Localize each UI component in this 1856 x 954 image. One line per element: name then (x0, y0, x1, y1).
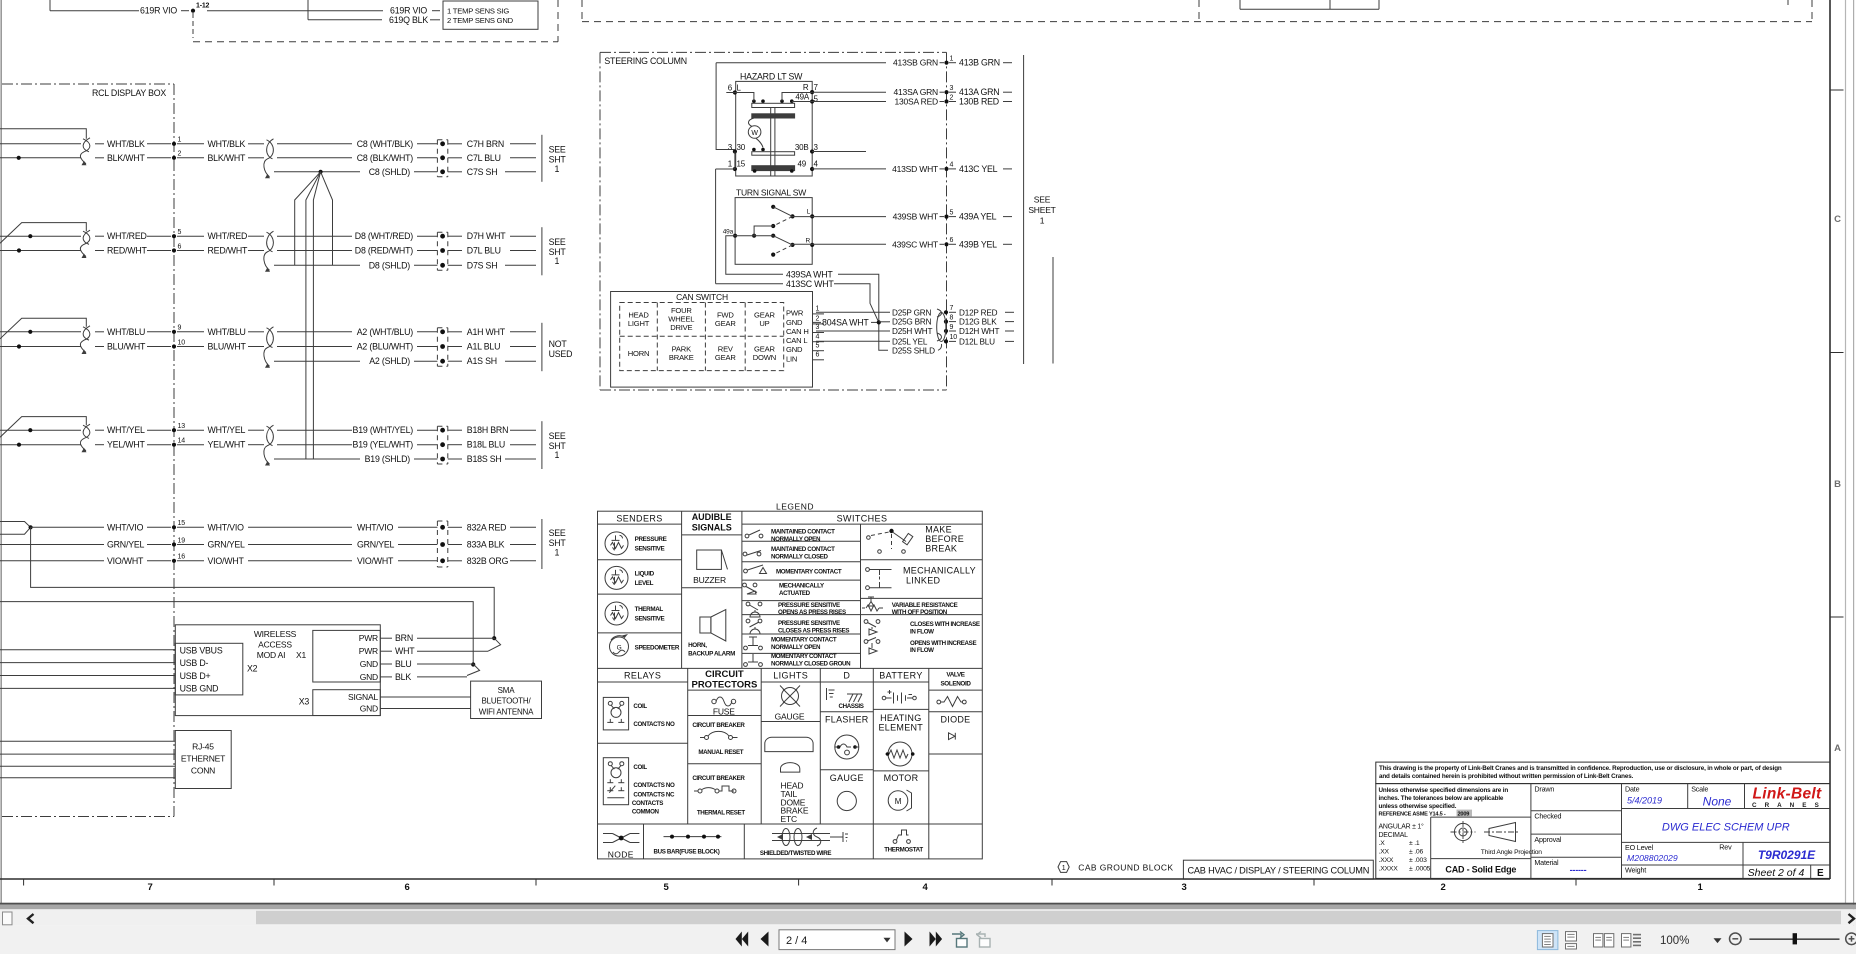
wire D7H WHT (448, 231, 536, 241)
node 1-12 junction (191, 3, 210, 39)
label 619Q BLK (389, 15, 440, 25)
wire YEL/WHT row2 (95, 440, 171, 450)
CAN pin 2 (813, 316, 825, 324)
valve solenoid symbol (937, 697, 966, 707)
wire shield D8 (SHLD) (274, 260, 437, 270)
svg-text:W: W (751, 130, 758, 137)
svg-text:BLUETOOTH/: BLUETOOTH/ (482, 697, 532, 706)
svg-text:NORMALLY OPEN: NORMALLY OPEN (771, 536, 821, 543)
sender THERMAL SENSITIVE (605, 602, 664, 625)
title DWG ELEC SCHEM UPR (1662, 822, 1790, 834)
svg-text:833A BLK: 833A BLK (467, 540, 505, 550)
svg-text:LEGEND: LEGEND (776, 502, 814, 512)
svg-text:A1S SH: A1S SH (467, 356, 497, 366)
svg-text:1: 1 (950, 56, 954, 63)
wire WHT/RED mid (177, 231, 264, 241)
svg-text:Third Angle Projection: Third Angle Projection (1481, 849, 1543, 856)
wire A1S SH (448, 356, 536, 366)
svg-text:9: 9 (178, 325, 182, 332)
svg-text:BREAK: BREAK (925, 544, 957, 554)
heating element (878, 713, 923, 766)
svg-text:SWITCHES: SWITCHES (837, 514, 888, 524)
svg-text:DRIVE: DRIVE (670, 323, 692, 332)
svg-text:MANUAL RESET: MANUAL RESET (698, 749, 743, 756)
svg-text:2009: 2009 (1458, 811, 1470, 817)
wire C8 (BLK/WHT) (277, 153, 437, 163)
svg-text:MOTOR: MOTOR (884, 773, 919, 783)
legend frame (598, 511, 983, 859)
switch CLOSES WITH INCREASE IN FLOW (864, 620, 980, 636)
svg-text:HORN: HORN (628, 349, 650, 358)
svg-text:ACTUATED: ACTUATED (779, 590, 811, 597)
svg-text:413B GRN: 413B GRN (959, 58, 1000, 68)
toolbar zoom slider (1749, 933, 1839, 944)
svg-text:A1H WHT: A1H WHT (467, 327, 506, 337)
wire B19 (WHT/YEL) (277, 425, 437, 435)
hazard terminal 49 4 (790, 159, 819, 173)
svg-text:SHIELDED/TWISTED WIRE: SHIELDED/TWISTED WIRE (760, 850, 832, 857)
svg-text:R: R (803, 83, 809, 92)
svg-text:Material: Material (1534, 858, 1559, 867)
hazard terminal 1 15 (728, 159, 757, 173)
wire 413SC WHT (716, 279, 879, 323)
svg-text:WHT: WHT (395, 646, 415, 656)
wire USB VBUS (0, 649, 175, 651)
svg-text:------: ------ (1570, 865, 1587, 875)
svg-text:30B: 30B (795, 143, 809, 152)
svg-text:ETC: ETC (781, 814, 797, 824)
svg-text:FUSE: FUSE (713, 707, 735, 717)
wire shield bus fan (295, 172, 333, 459)
svg-text:D7L BLU: D7L BLU (467, 246, 501, 256)
svg-text:SMA: SMA (498, 686, 516, 695)
legend header CIRCUIT PROTECTORS (691, 669, 757, 690)
node pin 6 (172, 243, 182, 252)
svg-text:.X: .X (1379, 840, 1386, 847)
wire RJ45 2 (0, 753, 175, 755)
svg-text:MECHANICALLY: MECHANICALLY (903, 566, 976, 576)
toolbar view single page (active) (1537, 931, 1558, 950)
page right edge (1846, 0, 1854, 928)
svg-text:DECIMAL: DECIMAL (1379, 832, 1409, 839)
svg-text:WIRELESS: WIRELESS (254, 629, 297, 639)
CAN pin 4 (813, 333, 825, 341)
toolbar zoom in (1846, 933, 1856, 945)
zone numbers (147, 882, 1703, 893)
node pin 9 (172, 325, 182, 334)
svg-text:D7S SH: D7S SH (467, 260, 498, 270)
hazard terminal R 7 (803, 83, 819, 94)
wire D25H WHT (892, 327, 932, 336)
wire YEL/WHT mid (177, 440, 264, 450)
svg-text:2: 2 (1440, 882, 1445, 893)
svg-text:HORN,: HORN, (688, 642, 707, 649)
hazard terminal 3 30 (728, 143, 746, 154)
svg-text:100%: 100% (1660, 935, 1689, 947)
wire WHT/BLK row1 (95, 139, 171, 149)
svg-text:CIRCUIT BREAKER: CIRCUIT BREAKER (692, 775, 745, 782)
svg-text:LEVEL: LEVEL (635, 580, 654, 587)
CAN pin 3 (813, 324, 825, 332)
svg-text:10: 10 (178, 339, 186, 346)
svg-text:NORMALLY CLOSED GROUN: NORMALLY CLOSED GROUN (771, 660, 851, 667)
ground CAB GROUND BLOCK (1058, 862, 1174, 873)
svg-text:CAN SWITCH: CAN SWITCH (676, 292, 728, 302)
wire D8 (RED/WHT) (277, 246, 437, 256)
svg-text:PWR: PWR (359, 633, 378, 643)
svg-text:unless otherwise specified.: unless otherwise specified. (1379, 803, 1457, 810)
svg-text:A2 (BLU/WHT): A2 (BLU/WHT) (357, 342, 414, 352)
legend header VALVE SOLENOID (940, 672, 971, 688)
svg-text:THERMOSTAT: THERMOSTAT (884, 846, 923, 853)
scrollbar track (0, 909, 1856, 926)
svg-text:CLOSES AS PRESS RISES: CLOSES AS PRESS RISES (778, 627, 849, 634)
svg-text:PRESSURE SENSITIVE: PRESSURE SENSITIVE (778, 602, 840, 609)
flasher (825, 714, 869, 759)
wire B19 (YEL/WHT) (277, 440, 437, 450)
svg-text:REFERENCE ASME Y14.5 -: REFERENCE ASME Y14.5 - (1379, 811, 1446, 817)
svg-text:BRN: BRN (395, 633, 413, 643)
svg-text:BATTERY: BATTERY (879, 671, 922, 681)
wire BLK/WHT row2 (95, 153, 171, 163)
svg-text:130SA RED: 130SA RED (894, 97, 938, 107)
sender PRESSURE SENSITIVE (605, 532, 667, 555)
svg-text:± .0005: ± .0005 (1409, 865, 1431, 872)
svg-text:1-12: 1-12 (196, 3, 210, 10)
svg-text:GRN/YEL: GRN/YEL (357, 540, 395, 550)
svg-text:SPEEDOMETER: SPEEDOMETER (635, 645, 680, 652)
wire 619Q BLK (308, 0, 382, 20)
switch MOMENTARY CONTACT NORMALLY CLOSED (744, 653, 852, 667)
relay COIL NO NC COMMON (603, 758, 675, 816)
svg-text:B: B (1834, 479, 1841, 490)
svg-text:GRN/YEL: GRN/YEL (208, 540, 246, 550)
svg-text:CAD - Solid Edge: CAD - Solid Edge (1445, 865, 1516, 875)
svg-text:GND: GND (786, 345, 803, 354)
node pin 4 / wire 413C YEL (944, 162, 1012, 174)
wire WHT/YEL row1 (95, 425, 171, 435)
sender LIQUID LEVEL (605, 566, 655, 589)
svg-text:WHT/VIO: WHT/VIO (107, 522, 144, 532)
wire pair WHT/BLK/BLK/WHT left entry (0, 129, 86, 160)
wire B18H BRN (448, 425, 536, 435)
toolbar page input (779, 930, 895, 950)
battery symbol (882, 690, 916, 704)
svg-text:AUDIBLE: AUDIBLE (692, 512, 732, 522)
svg-text:13: 13 (178, 423, 186, 430)
svg-text:WHT/BLU: WHT/BLU (208, 327, 246, 337)
svg-text:DIODE: DIODE (940, 714, 970, 724)
label 619R VIO (140, 6, 440, 16)
node pin 7 / wire D12P RED (944, 305, 1014, 317)
svg-text:IN FLOW: IN FLOW (910, 647, 934, 654)
svg-text:Link-Belt: Link-Belt (1752, 786, 1822, 803)
protector CIRCUIT BREAKER THERMAL RESET (692, 775, 745, 817)
svg-text:RCL DISPLAY BOX: RCL DISPLAY BOX (92, 88, 166, 98)
svg-text:YEL/WHT: YEL/WHT (208, 440, 247, 450)
bus bar symbol (654, 835, 722, 856)
svg-text:VALVE: VALVE (946, 672, 964, 679)
svg-text:± .1: ± .1 (1409, 840, 1420, 847)
svg-text:6: 6 (816, 352, 820, 359)
note bracket B19 (542, 421, 567, 469)
drawing border right (1829, 0, 1831, 879)
svg-text:D12L BLU: D12L BLU (959, 337, 995, 346)
svg-text:BLU: BLU (395, 659, 412, 669)
svg-text:LIN: LIN (786, 354, 797, 363)
svg-text:BUZZER: BUZZER (693, 575, 726, 585)
svg-text:WHT/BLU: WHT/BLU (107, 327, 145, 337)
toolbar next page button (905, 932, 913, 947)
svg-text:SEE: SEE (549, 431, 566, 441)
connector X3 (299, 690, 381, 716)
svg-text:SIGNALS: SIGNALS (692, 523, 732, 533)
svg-text:413C YEL: 413C YEL (959, 164, 998, 174)
shield oval (937, 309, 946, 342)
svg-text:OPENS WITH INCREASE: OPENS WITH INCREASE (910, 640, 976, 647)
svg-text:CAN L: CAN L (786, 336, 807, 345)
wire WHT/BLK mid (177, 139, 264, 149)
svg-text:Date: Date (1625, 785, 1640, 794)
CAN key FOUR WHEEL DRIVE (668, 306, 694, 332)
svg-text:SHT: SHT (549, 538, 567, 548)
svg-text:BACKUP ALARM: BACKUP ALARM (688, 651, 735, 658)
switch CAN SWITCH box (611, 292, 813, 388)
svg-text:30: 30 (737, 143, 746, 152)
hazard contacts upper (735, 93, 812, 103)
wire WHT (380, 646, 488, 656)
wire 439SC WHT (793, 239, 945, 249)
svg-text:WHT/RED: WHT/RED (208, 231, 248, 241)
svg-text:SOLENOID: SOLENOID (940, 681, 971, 688)
svg-text:ACCESS: ACCESS (258, 640, 292, 650)
legend header BATTERY (879, 671, 922, 681)
node pin 13 (172, 423, 185, 432)
twisted pair symbol B19 A (80, 424, 90, 452)
svg-text:GND: GND (786, 318, 803, 327)
switch HAZARD LT SW box (736, 72, 813, 177)
twisted pair symbol C8 B (264, 139, 274, 179)
svg-text:inches. The tolerances below: inches. The tolerances below are applica… (1379, 795, 1504, 802)
svg-text:TURN SIGNAL SW: TURN SIGNAL SW (736, 188, 806, 198)
svg-text:D12G BLK: D12G BLK (959, 318, 997, 327)
svg-text:SHEET: SHEET (1028, 205, 1055, 215)
svg-text:M: M (895, 797, 902, 806)
page left edge (0, 0, 2, 903)
svg-text:± .003: ± .003 (1409, 857, 1427, 864)
protector CIRCUIT BREAKER MANUAL RESET (692, 722, 745, 756)
EO level row (1622, 842, 1831, 878)
wire RJ45 3 (0, 765, 175, 767)
wire BRN (380, 633, 500, 651)
svg-text:ELEMENT: ELEMENT (878, 722, 923, 732)
wire C8 (WHT/BLK) (277, 139, 437, 149)
svg-text:VARIABLE RESISTANCE: VARIABLE RESISTANCE (892, 602, 958, 609)
switch MAINTAINED CONTACT NORMALLY OPEN (745, 529, 835, 543)
svg-text:BLK/WHT: BLK/WHT (107, 153, 146, 163)
svg-text:130B RED: 130B RED (959, 97, 999, 107)
connector X2 USB (175, 643, 257, 695)
svg-text:RELAYS: RELAYS (624, 671, 661, 681)
wire GRN/YEL row (107, 537, 437, 549)
svg-text:GAUGE: GAUGE (775, 712, 805, 722)
svg-text:C R A N E S: C R A N E S (1752, 802, 1822, 809)
wire C7H BRN (448, 139, 536, 149)
relay COIL CONTACTS NO (603, 697, 675, 730)
svg-text:B18L BLU: B18L BLU (467, 440, 505, 450)
component SMA BLUETOOTH/WIFI ANTENNA (471, 681, 542, 718)
svg-text:15: 15 (178, 520, 186, 527)
dashed enclosure top-left (193, 0, 558, 42)
svg-text:BLK/WHT: BLK/WHT (208, 153, 247, 163)
svg-text:USED: USED (549, 349, 573, 359)
svg-text:Unless otherwise specified dim: Unless otherwise specified dimensions ar… (1379, 787, 1509, 794)
svg-text:WITH OFF POSITION: WITH OFF POSITION (892, 609, 948, 616)
svg-text:1: 1 (555, 256, 560, 266)
svg-text:Scale: Scale (1691, 785, 1708, 794)
svg-text:IN FLOW: IN FLOW (910, 628, 934, 635)
hazard terminal 6 L (726, 84, 741, 95)
wire 619R VIO (50, 0, 383, 11)
svg-text:BEFORE: BEFORE (925, 534, 964, 544)
ground chassis symbols (827, 688, 864, 710)
svg-text:15: 15 (737, 159, 746, 168)
svg-text:VIO/WHT: VIO/WHT (107, 556, 144, 566)
component box fragment top (1240, 0, 1379, 9)
wire X3 GND (380, 708, 470, 710)
svg-text:YEL/WHT: YEL/WHT (107, 440, 146, 450)
svg-text:1: 1 (1040, 216, 1045, 226)
hazard terminal 30B 3 (795, 143, 866, 154)
zone ticks right (1830, 90, 1844, 617)
svg-text:GND: GND (360, 659, 378, 669)
switch MECHANICALLY ACTUATED (743, 583, 825, 598)
svg-text:A1L BLU: A1L BLU (467, 342, 500, 352)
svg-text:GEAR: GEAR (715, 319, 736, 328)
svg-text:D12P RED: D12P RED (959, 308, 998, 317)
toolbar last page button (930, 932, 943, 947)
svg-text:10: 10 (950, 334, 958, 341)
svg-text:NORMALLY OPEN: NORMALLY OPEN (771, 644, 821, 651)
svg-text:1: 1 (555, 450, 560, 460)
wire WHT/VIO entry (0, 522, 104, 535)
svg-text:LIQUID: LIQUID (635, 570, 655, 577)
RCL DISPLAY BOX enclosure (2, 84, 174, 817)
CAN key HORN (628, 349, 650, 358)
svg-text:.XXXX: .XXXX (1379, 865, 1399, 872)
svg-text:UP: UP (759, 319, 769, 328)
CAN key GEAR UP (754, 311, 775, 329)
twisted pair symbol B19 B (264, 425, 274, 465)
svg-text:LIGHT: LIGHT (628, 319, 650, 328)
legend header AUDIBLE SIGNALS (692, 512, 732, 533)
svg-text:SENSITIVE: SENSITIVE (635, 616, 665, 623)
svg-text:19: 19 (178, 537, 186, 544)
svg-text:X3: X3 (299, 697, 310, 707)
wire BLU/WHT mid (177, 342, 264, 352)
switch PRESSURE SENSITIVE CLOSES (746, 619, 849, 634)
switch MAKE BEFORE BREAK (867, 525, 964, 554)
svg-text:3: 3 (1181, 882, 1186, 893)
node shield bus junction (319, 170, 323, 174)
svg-text:and details contained herein i: and details contained herein is prohibit… (1379, 773, 1634, 780)
svg-text:D12H WHT: D12H WHT (959, 327, 999, 336)
svg-text:Rev: Rev (1719, 843, 1732, 852)
switch MOMENTARY CONTACT NORMALLY OPEN (744, 637, 837, 651)
wire D7S SH (448, 260, 536, 270)
svg-text:PRESSURE SENSITIVE: PRESSURE SENSITIVE (778, 620, 840, 627)
connector C8 (437, 140, 447, 177)
twisted pair symbol D8 B (264, 231, 274, 272)
svg-text:804SA WHT: 804SA WHT (822, 318, 869, 328)
svg-text:16: 16 (178, 554, 186, 561)
title block notice box (1376, 762, 1830, 784)
svg-text:C: C (1834, 214, 1841, 225)
svg-text:X2: X2 (247, 664, 258, 674)
note bracket A2 (542, 323, 572, 371)
node pin 3 / wire 413A GRN (944, 85, 1012, 97)
svg-text:GND: GND (360, 704, 378, 714)
wire D25S SHLD (892, 344, 942, 355)
wire A2 (BLU/WHT) (277, 342, 437, 352)
connector B19 (437, 426, 447, 464)
svg-text:GAUGE: GAUGE (830, 773, 864, 783)
svg-text:3: 3 (950, 85, 954, 92)
wire USB D+ (0, 675, 175, 677)
node pin 5 (172, 229, 182, 238)
wire VIO/WHT entry (0, 560, 104, 562)
node pin 6 / wire 439B YEL (944, 237, 1012, 249)
svg-text:SIGNAL: SIGNAL (348, 692, 378, 702)
legend header LIGHTS (773, 671, 808, 681)
svg-text:D25P GRN: D25P GRN (892, 308, 931, 317)
drawn checked approval material rows (1531, 785, 1622, 875)
svg-text:CAB HVAC / DISPLAY / STEERING: CAB HVAC / DISPLAY / STEERING COLUMN (1187, 865, 1369, 875)
zone letters (1834, 214, 1841, 754)
scrollbar left icon (3, 912, 13, 925)
lamp W (748, 118, 763, 148)
svg-text:C7H BRN: C7H BRN (467, 139, 504, 149)
wire pair WHT/RED/RED/WHT left entry (0, 223, 86, 253)
wire D25P GRN (892, 308, 931, 317)
svg-text:This drawing is the property o: This drawing is the property of Link-Bel… (1379, 765, 1782, 772)
diode (940, 714, 970, 739)
toolbar background (0, 926, 1856, 954)
svg-text:RED/WHT: RED/WHT (107, 246, 147, 256)
svg-text:VIO/WHT: VIO/WHT (208, 556, 245, 566)
node pin 10 / wire D12L BLU (944, 334, 1014, 346)
svg-text:BUS BAR(FUSE BLOCK): BUS BAR(FUSE BLOCK) (654, 849, 720, 856)
node pin 8 / wire D12G BLK (944, 314, 1014, 326)
wire BLK/WHT mid (177, 153, 264, 163)
CAN pin 5 (813, 342, 825, 350)
svg-text:WHT/BLK: WHT/BLK (107, 139, 145, 149)
zone ticks bottom (24, 879, 1576, 886)
light dome small (781, 763, 800, 773)
svg-text:LIGHTS: LIGHTS (773, 671, 808, 681)
svg-text:14: 14 (178, 438, 186, 445)
legend header SWITCHES (837, 514, 888, 524)
wire BLK (380, 672, 467, 682)
wire 413SD WHT (812, 164, 944, 174)
toolbar view continuous (1566, 932, 1577, 949)
svg-text:ANGULAR ± 1°: ANGULAR ± 1° (1379, 822, 1425, 830)
protector FUSE (712, 697, 736, 717)
svg-text:49a: 49a (723, 229, 734, 236)
svg-text:SENDERS: SENDERS (616, 514, 662, 524)
wire 439SB WHT (793, 212, 945, 222)
hazard bus bar upper (752, 103, 795, 118)
